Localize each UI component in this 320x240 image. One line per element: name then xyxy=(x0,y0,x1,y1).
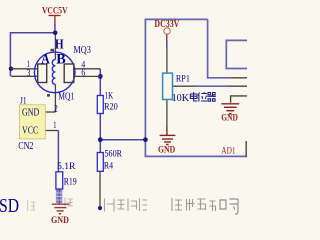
svg-text:J1: J1 xyxy=(20,97,27,107)
svg-text:R4: R4 xyxy=(104,160,114,170)
svg-text:SD: SD xyxy=(0,195,19,217)
svg-text:MQ3: MQ3 xyxy=(73,45,91,56)
svg-text:2: 2 xyxy=(54,105,58,115)
svg-text:GND: GND xyxy=(22,108,39,119)
svg-text:1: 1 xyxy=(53,121,56,131)
svg-text:10K: 10K xyxy=(172,93,190,104)
svg-text:6: 6 xyxy=(81,69,85,79)
svg-text:560R: 560R xyxy=(105,148,123,158)
svg-text:GND: GND xyxy=(158,145,175,155)
svg-text:VCC: VCC xyxy=(22,125,38,136)
svg-text:1K: 1K xyxy=(105,90,114,100)
svg-text:A: A xyxy=(41,51,50,67)
svg-text:RP1: RP1 xyxy=(176,74,190,84)
svg-text:H: H xyxy=(55,38,64,53)
svg-text:R20: R20 xyxy=(104,101,118,111)
svg-text:GND: GND xyxy=(221,113,238,123)
svg-text:3: 3 xyxy=(27,69,31,79)
svg-text:MQ1: MQ1 xyxy=(58,91,74,102)
svg-text:B: B xyxy=(56,51,65,67)
svg-text:AD1: AD1 xyxy=(221,145,235,155)
svg-text:5.1R: 5.1R xyxy=(57,162,76,172)
svg-text:CN2: CN2 xyxy=(18,141,33,152)
svg-text:GND: GND xyxy=(51,216,69,226)
svg-text:R19: R19 xyxy=(64,177,77,187)
svg-text:VCC5V: VCC5V xyxy=(42,6,68,16)
